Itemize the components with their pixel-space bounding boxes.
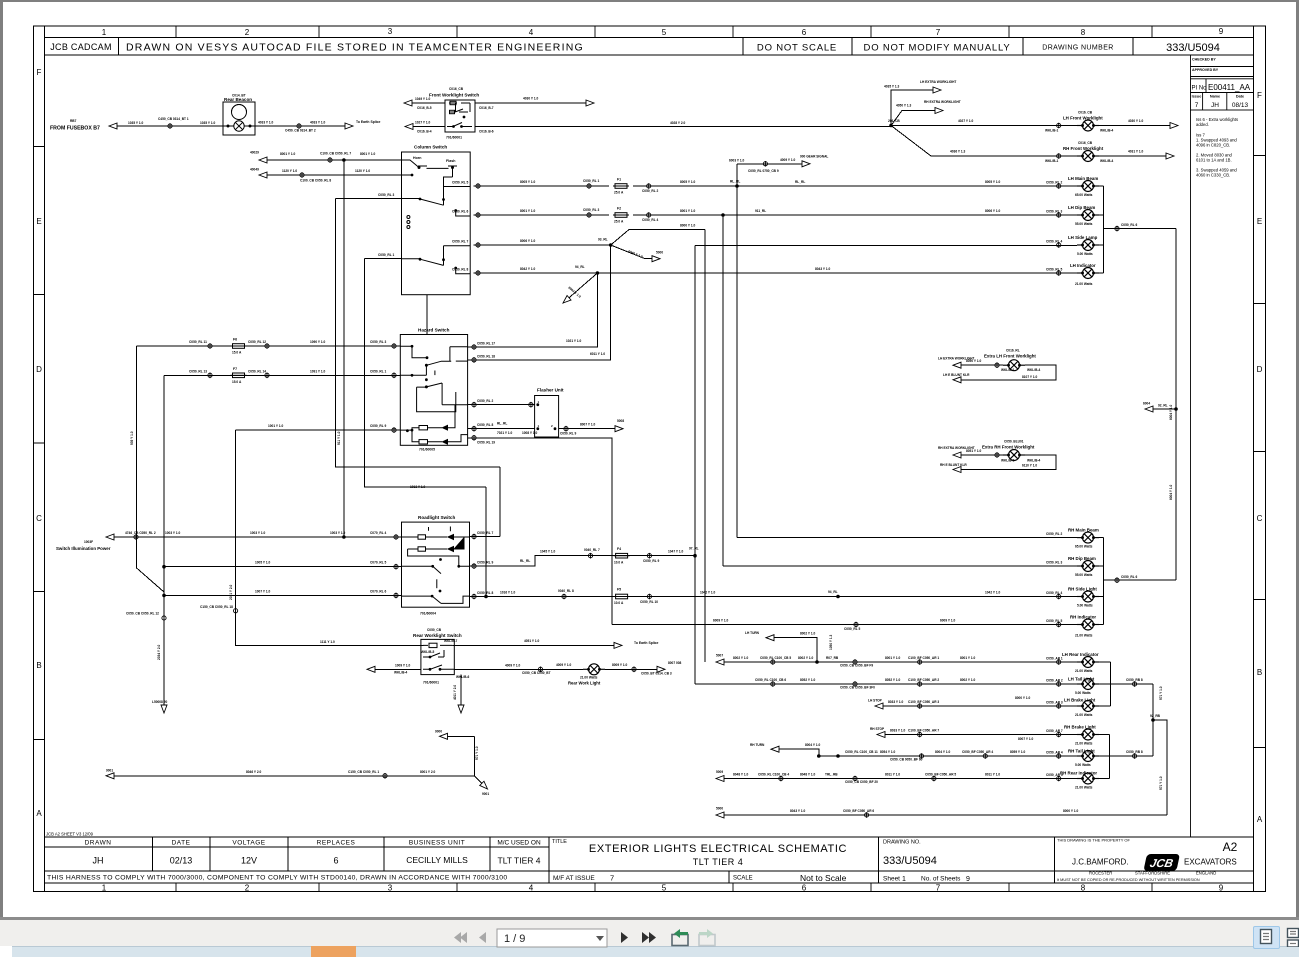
header row cells <box>119 38 1134 56</box>
svg-text:8046 Y 2.0: 8046 Y 2.0 <box>246 770 262 774</box>
svg-text:C016_B-7: C016_B-7 <box>479 106 494 110</box>
svg-text:WKL/B-6: WKL/B-6 <box>456 675 470 679</box>
svg-text:LH TURN: LH TURN <box>745 631 760 635</box>
page number box <box>497 929 607 947</box>
svg-text:LH STOP: LH STOP <box>868 699 883 703</box>
lamp: extra RH front worklight <box>1003 450 1025 461</box>
svg-text:F1: F1 <box>617 178 621 182</box>
svg-text:C050_RL 9: C050_RL 9 <box>643 559 659 563</box>
svg-text:C050_RL C100_CB 4: C050_RL C100_CB 4 <box>758 772 789 776</box>
svg-text:C050_RL 9: C050_RL 9 <box>560 432 576 436</box>
svg-text:206_CB: 206_CB <box>888 119 900 123</box>
viewer chrome: bottom page shadow line <box>0 917 1299 920</box>
node: bottom earth splice <box>865 812 869 818</box>
node: earth splice 8046 <box>383 773 387 779</box>
wire: spur arrow 5000 <box>611 245 652 259</box>
wire: extra RH worklight loop <box>960 455 1056 470</box>
svg-text:C050_RL C100_CB 11: C050_RL C100_CB 11 <box>845 750 878 754</box>
wire: bottom earth row 8000 <box>723 814 1167 816</box>
lamp: RH brake light <box>1077 729 1099 740</box>
fuse F4 <box>614 553 630 558</box>
svg-text:E: E <box>36 217 41 226</box>
wire: rear worklight top out to earth splice <box>452 644 615 646</box>
node: F6 in <box>208 343 212 349</box>
arrow: flash supply <box>259 172 267 178</box>
node: RH brake splices <box>918 732 922 738</box>
svg-text:93_RL: 93_RL <box>598 238 608 242</box>
svg-text:M/C USED ON: M/C USED ON <box>497 840 541 847</box>
svg-text:1042 Y 1.0: 1042 Y 1.0 <box>700 591 716 595</box>
svg-text:ROCESTER: ROCESTER <box>1089 871 1112 876</box>
svg-text:4028 Y 2.0: 4028 Y 2.0 <box>670 121 686 125</box>
svg-text:C016_B-5: C016_B-5 <box>417 106 432 110</box>
svg-text:C050_CB C050_RL 12: C050_CB C050_RL 12 <box>126 612 159 616</box>
svg-text:1035 Y 1.0: 1035 Y 1.0 <box>200 121 216 125</box>
svg-text:Rear Worklight Switch: Rear Worklight Switch <box>413 633 462 638</box>
svg-text:RH Rear Indicator: RH Rear Indicator <box>1060 771 1097 776</box>
wire: hazard to flasher pin2 <box>468 428 535 430</box>
svg-text:Hazard Switch: Hazard Switch <box>418 328 450 333</box>
junction: illumination bus tee <box>342 158 346 162</box>
lamp: RH tail light <box>1077 751 1099 762</box>
svg-text:6003 Y 1.0: 6003 Y 1.0 <box>729 159 745 163</box>
node: hazard out 19 <box>472 435 476 441</box>
wire: worklight feed to LH extra worklight arrow <box>891 90 933 126</box>
svg-text:CHECKED BY: CHECKED BY <box>1192 58 1216 62</box>
lamp: LH indicator <box>1077 268 1099 279</box>
svg-text:RH Main Beam: RH Main Beam <box>1068 528 1099 533</box>
svg-text:WKL/B-1: WKL/B-1 <box>1001 368 1015 372</box>
arrow: to earth splice (beacon) <box>345 123 353 129</box>
node: RH collector splice <box>1115 577 1119 583</box>
svg-text:C050_RL 4: C050_RL 4 <box>1046 240 1062 244</box>
svg-text:C050_RL 10: C050_RL 10 <box>640 600 658 604</box>
svg-text:5.00 Watts: 5.00 Watts <box>1077 604 1093 608</box>
svg-text:ENGLAND: ENGLAND <box>1196 871 1216 876</box>
svg-text:C050_AR 7: C050_AR 7 <box>1046 729 1063 733</box>
viewer toolbar background <box>0 920 1299 946</box>
svg-text:971 Y 1.0: 971 Y 1.0 <box>1159 686 1163 700</box>
svg-text:21.00 Watts: 21.00 Watts <box>1075 786 1093 790</box>
svg-text:1013 Y 1.0: 1013 Y 1.0 <box>410 485 426 489</box>
svg-text:C050_CB C050_BT: C050_CB C050_BT <box>522 671 551 675</box>
svg-text:C: C <box>36 514 42 523</box>
header row bottom line <box>45 54 1254 56</box>
svg-text:C050_RL 14: C050_RL 14 <box>248 369 266 373</box>
svg-text:65.00 Watts: 65.00 Watts <box>1075 545 1093 549</box>
svg-text:1016 Y 1.0: 1016 Y 1.0 <box>500 591 516 595</box>
node: column out 6 <box>476 212 480 218</box>
svg-text:9001: 9001 <box>482 792 489 796</box>
svg-text:2: 2 <box>245 884 250 893</box>
wire: LH rear collector <box>1110 662 1112 706</box>
svg-text:55.00 Watts: 55.00 Watts <box>1075 222 1093 226</box>
svg-text:8001 Y 1.0: 8001 Y 1.0 <box>960 656 976 660</box>
svg-text:2: 2 <box>551 424 553 428</box>
svg-text:RL_RL: RL_RL <box>730 180 740 184</box>
node: LH tail splices <box>771 681 775 687</box>
svg-text:8001 Y 2.0: 8001 Y 2.0 <box>420 770 436 774</box>
svg-text:97_RL: 97_RL <box>689 547 699 551</box>
svg-text:DRAWING NUMBER: DRAWING NUMBER <box>1042 45 1113 52</box>
svg-text:A: A <box>36 809 42 818</box>
next view icon (disabled) <box>699 929 715 946</box>
svg-text:701/60001: 701/60001 <box>423 681 439 685</box>
svg-text:21.00 Watts: 21.00 Watts <box>1075 669 1093 673</box>
svg-text:1003 Y 1.0: 1003 Y 1.0 <box>165 531 181 535</box>
svg-text:Horn: Horn <box>413 156 421 160</box>
toolbar: first page button <box>450 928 720 948</box>
svg-text:RH Front Worklight: RH Front Worklight <box>1063 146 1104 151</box>
svg-text:C450_CB 0314_BT 1: C450_CB 0314_BT 1 <box>158 117 189 121</box>
wire: hazard out to RH indicator riser <box>468 438 612 625</box>
svg-text:911 Y 1.0: 911 Y 1.0 <box>337 431 341 445</box>
svg-text:15.0 A: 15.0 A <box>232 351 242 355</box>
svg-text:C050_AR 1: C050_AR 1 <box>1046 657 1063 661</box>
svg-text:40049: 40049 <box>250 168 259 172</box>
svg-text:WKL/B-4: WKL/B-4 <box>1027 459 1041 463</box>
node: gear signal splice <box>763 161 767 167</box>
wire: bus from column pin3 down <box>336 199 501 468</box>
wire: indicator row 8043 <box>474 272 1104 274</box>
svg-text:LH Dip Beam: LH Dip Beam <box>1068 205 1095 210</box>
wire: tail link vertical <box>1152 684 1154 756</box>
svg-text:LH Main Beam: LH Main Beam <box>1068 176 1098 181</box>
svg-text:701/60004: 701/60004 <box>420 612 436 616</box>
svg-text:C050_RL 18: C050_RL 18 <box>477 355 495 359</box>
svg-text:8002 Y 1.0: 8002 Y 1.0 <box>960 678 976 682</box>
arrow: earth 9000 <box>440 733 448 739</box>
JCB logo <box>1143 854 1180 871</box>
svg-text:C050_RL 1: C050_RL 1 <box>583 179 599 183</box>
svg-text:4746_CB C050_RL 2: 4746_CB C050_RL 2 <box>125 531 156 535</box>
svg-text:6009 Y 1.0: 6009 Y 1.0 <box>940 619 956 623</box>
wire: hazard riser to indicator row <box>468 273 598 347</box>
node: F1 out <box>647 183 651 189</box>
svg-text:5.00 Watts: 5.00 Watts <box>1075 763 1091 767</box>
junction: RH tail riser on side row <box>836 595 840 599</box>
svg-text:3: 3 <box>388 884 393 893</box>
svg-text:94_RL: 94_RL <box>828 590 838 594</box>
svg-text:C050_RL 11: C050_RL 11 <box>189 340 207 344</box>
svg-text:C050_CB C050_BF F9: C050_CB C050_BF F9 <box>840 664 873 668</box>
svg-text:6: 6 <box>333 856 338 866</box>
arrow: LH rear ind feed <box>716 659 724 665</box>
lamp: LH side lamp <box>1077 240 1099 251</box>
node: illumination splice <box>134 534 138 540</box>
node: hazard in 1 <box>392 373 396 379</box>
junction: RH main riser tee <box>735 184 739 188</box>
svg-text:21.00 Watts: 21.00 Watts <box>580 676 598 680</box>
viewer chrome: top gray edge <box>0 0 1299 2</box>
svg-text:Rear Work Light: Rear Work Light <box>568 681 601 686</box>
svg-text:WKL/B-7: WKL/B-7 <box>444 639 458 643</box>
svg-text:Name: Name <box>1210 95 1220 99</box>
arrow: RH extra worklight out <box>935 108 943 114</box>
svg-text:Flash: Flash <box>446 159 455 163</box>
svg-text:WKL/B-5: WKL/B-5 <box>421 650 435 654</box>
svg-text:8000 Y 1.0: 8000 Y 1.0 <box>1015 696 1031 700</box>
svg-text:4051 Y 1.0: 4051 Y 1.0 <box>524 639 540 643</box>
node: hazard out 17 <box>472 344 476 350</box>
arrow: LH front worklight out <box>1170 123 1178 129</box>
svg-text:RL_RL: RL_RL <box>795 180 805 184</box>
svg-text:Flasher Unit: Flasher Unit <box>537 388 564 393</box>
svg-text:1050 Y 1.3: 1050 Y 1.3 <box>829 634 833 650</box>
svg-text:RH E BLUNT KLR: RH E BLUNT KLR <box>940 463 967 467</box>
node: flasher in <box>529 402 533 408</box>
svg-text:9: 9 <box>1219 27 1224 36</box>
node: hazard out 2 <box>472 402 476 408</box>
svg-text:J.C.BAMFORD.: J.C.BAMFORD. <box>1072 858 1128 867</box>
lamp: LH brake light <box>1077 701 1099 712</box>
svg-text:94_RL: 94_RL <box>575 265 585 269</box>
wire: RH side row through F5 <box>470 596 1104 598</box>
svg-text:STAFFORDSHIRE: STAFFORDSHIRE <box>1135 871 1170 876</box>
arrow: LH turn <box>766 635 774 641</box>
svg-text:12V: 12V <box>241 856 257 866</box>
node: RH indicator connector <box>1057 622 1061 628</box>
svg-text:1005 Y 1.0: 1005 Y 1.0 <box>255 561 271 565</box>
svg-text:1090 Y 1.0: 1090 Y 1.0 <box>310 340 326 344</box>
svg-text:CECILLY MILLS: CECILLY MILLS <box>406 855 468 865</box>
svg-text:SCALE: SCALE <box>733 876 753 882</box>
wire: LH rear indicator row <box>723 661 1111 663</box>
svg-text:4009 Y 1.0: 4009 Y 1.0 <box>505 663 521 667</box>
svg-text:C100_CB C050_RL 8: C100_CB C050_RL 8 <box>300 179 331 183</box>
svg-text:C050_RL 3: C050_RL 3 <box>1046 210 1062 214</box>
svg-text:5009: 5009 <box>716 770 723 774</box>
svg-text:8: 8 <box>1081 28 1086 37</box>
node: RH rear ind splices <box>779 776 783 782</box>
svg-text:F: F <box>1257 91 1262 100</box>
lamp: RH front worklight <box>1077 151 1099 162</box>
svg-text:C100_BF C050_AR 1: C100_BF C050_AR 1 <box>908 656 939 660</box>
svg-text:Switch Illumination Power: Switch Illumination Power <box>56 546 111 551</box>
wire: front worklight switch top row <box>411 102 587 104</box>
svg-text:4060 in C330_CB.: 4060 in C330_CB. <box>1196 173 1230 178</box>
wire: earth riser <box>447 736 475 776</box>
svg-text:4035 Y 1.3: 4035 Y 1.3 <box>884 85 900 89</box>
svg-text:7021 Y 1.0: 7021 Y 1.0 <box>497 431 513 435</box>
svg-text:C050_CB: C050_CB <box>427 628 442 632</box>
junction: bus 164 row1 <box>162 565 166 569</box>
wire: RH dip feed riser <box>722 215 724 566</box>
svg-text:added.: added. <box>1196 122 1209 127</box>
svg-text:10.0 A: 10.0 A <box>614 561 624 565</box>
svg-text:7: 7 <box>936 884 941 893</box>
svg-text:D: D <box>1257 365 1263 374</box>
svg-text:4: 4 <box>529 28 534 37</box>
svg-text:1045 Y 1.0: 1045 Y 1.0 <box>540 550 556 554</box>
svg-text:C100_BF C050_AR 7: C100_BF C050_AR 7 <box>908 729 939 733</box>
svg-text:B: B <box>1257 668 1262 677</box>
junction: worklight branch <box>889 124 893 128</box>
component: flasher unit <box>535 396 559 438</box>
svg-text:1042 Y 1.0: 1042 Y 1.0 <box>985 591 1001 595</box>
svg-text:WKL/B-4: WKL/B-4 <box>1100 129 1114 133</box>
wire: rear earth riser <box>1152 720 1167 815</box>
svg-text:8001 Y 1.0: 8001 Y 1.0 <box>680 209 696 213</box>
wire: rear work light lamp row <box>454 668 658 670</box>
node: extra LH connector <box>995 362 999 368</box>
svg-text:C050_CB C050_BF 3F0: C050_CB C050_BF 3F0 <box>840 686 875 690</box>
svg-text:911_RL: 911_RL <box>755 209 766 213</box>
svg-text:C050_RB 8: C050_RB 8 <box>1126 750 1143 754</box>
svg-text:C050_BF C050_AR 6: C050_BF C050_AR 6 <box>843 809 874 813</box>
svg-text:C050_RL 1: C050_RL 1 <box>370 369 386 373</box>
svg-text:C050_RB 8: C050_RB 8 <box>1126 678 1143 682</box>
svg-text:C050_BLU01: C050_BLU01 <box>1004 440 1024 444</box>
arrow: RH front worklight out <box>1166 153 1174 159</box>
svg-text:8006 Y 1.0: 8006 Y 1.0 <box>985 209 1001 213</box>
svg-text:55.00 Watts: 55.00 Watts <box>1075 573 1093 577</box>
svg-text:8052 Y 1.0: 8052 Y 1.0 <box>800 678 816 682</box>
component: column switch <box>402 152 471 295</box>
svg-text:4030 Y 1.0: 4030 Y 1.0 <box>1128 119 1144 123</box>
svg-text:DRAWN: DRAWN <box>85 840 112 847</box>
svg-text:C016_B-6: C016_B-6 <box>479 130 494 134</box>
svg-text:C050_RL 5: C050_RL 5 <box>1046 268 1062 272</box>
svg-text:LH Tail Light: LH Tail Light <box>1068 677 1095 682</box>
svg-text:08/13: 08/13 <box>1232 102 1249 109</box>
svg-text:C050_RL 8: C050_RL 8 <box>477 423 493 427</box>
wire: RH front worklight row <box>891 126 1166 157</box>
svg-text:6009 Y 1.0: 6009 Y 1.0 <box>713 619 729 623</box>
wire: main beam row 8005 <box>474 185 1104 187</box>
svg-text:L50008 20: L50008 20 <box>152 700 167 704</box>
svg-text:F7: F7 <box>233 367 237 371</box>
svg-text:1003 Y 1.0: 1003 Y 1.0 <box>330 531 346 535</box>
svg-text:7: 7 <box>610 874 614 883</box>
svg-text:C050_RL 17: C050_RL 17 <box>477 342 495 346</box>
svg-text:8059 Y 1.0: 8059 Y 1.0 <box>1010 750 1026 754</box>
wire: hazard bus down to rear worklight feed <box>236 430 424 645</box>
svg-text:RH Indicator: RH Indicator <box>1070 615 1096 620</box>
svg-text:6011 Y 1.0: 6011 Y 1.0 <box>590 352 605 356</box>
fuse F6 <box>231 344 247 349</box>
wire: bus from column pin1 down <box>365 259 486 487</box>
bottom numbers row top line <box>45 882 1254 884</box>
wire: fusebox B7 feed to rear beacon <box>116 125 346 127</box>
svg-text:2031 Y 2.0: 2031 Y 2.0 <box>229 584 233 600</box>
svg-text:C050_RL 3: C050_RL 3 <box>1046 561 1062 565</box>
svg-text:TLT TIER 4: TLT TIER 4 <box>498 856 541 866</box>
svg-text:8001 Y 1.0: 8001 Y 1.0 <box>280 152 296 156</box>
svg-text:971 Y 1.0: 971 Y 1.0 <box>1159 776 1163 790</box>
wire: RH main feed row <box>737 537 1104 539</box>
wire: column pin 3 to bus <box>336 198 402 200</box>
svg-text:C050_RL 2: C050_RL 2 <box>1046 181 1062 185</box>
wire: LH tail row <box>695 683 1153 685</box>
node: extra RH connector <box>995 452 999 458</box>
svg-text:1: 1 <box>902 876 906 883</box>
wire: roadlight feed 1005 <box>164 566 402 568</box>
svg-text:8004 Y 1.0: 8004 Y 1.0 <box>805 743 821 747</box>
svg-text:8107 Y 1.0: 8107 Y 1.0 <box>1022 375 1038 379</box>
lamp: LH tail light <box>1077 679 1099 690</box>
arrow: horn supply <box>259 157 267 163</box>
svg-text:TLT TIER 4: TLT TIER 4 <box>693 857 744 867</box>
svg-text:Extra RH Front Worklight: Extra RH Front Worklight <box>982 445 1035 450</box>
component: hazard switch 701/60005 <box>400 335 467 446</box>
component: rear beacon RB <box>223 102 255 135</box>
svg-text:8007 008: 8007 008 <box>668 661 682 665</box>
node: RH indicator splice <box>854 622 858 628</box>
component: front worklight switch 701/60001 <box>445 100 475 132</box>
node: column out 8 <box>476 270 480 276</box>
wire: bus 939 down left <box>137 346 164 592</box>
svg-text:1120 Y 1.0: 1120 Y 1.0 <box>355 169 370 173</box>
lamp: LH main beam <box>1077 181 1099 192</box>
svg-text:DO NOT SCALE: DO NOT SCALE <box>757 43 837 54</box>
svg-text:8043 Y 1.0: 8043 Y 1.0 <box>815 267 831 271</box>
svg-text:1003 Y 1.0: 1003 Y 1.0 <box>250 531 266 535</box>
wire: worklight feed to RH extra worklight arrow <box>891 111 935 126</box>
svg-text:8001 Y 1.0: 8001 Y 1.0 <box>360 152 376 156</box>
svg-text:15.0 A: 15.0 A <box>232 380 242 384</box>
svg-text:8005 Y 1.0: 8005 Y 1.0 <box>680 180 696 184</box>
svg-text:C050_RL 0750_CB 9: C050_RL 0750_CB 9 <box>748 169 779 173</box>
svg-text:R07_RB: R07_RB <box>826 656 839 660</box>
node: hazard out 8 <box>472 426 476 432</box>
svg-text:It MUST NOT BE COPIED OR RE-PR: It MUST NOT BE COPIED OR RE-PRODUCED WIT… <box>1057 878 1200 882</box>
svg-text:Roadlight Switch: Roadlight Switch <box>418 515 455 520</box>
wire: horn input 8001 <box>266 159 402 161</box>
svg-text:8: 8 <box>1081 884 1086 893</box>
junction: RH dip riser tee <box>721 213 725 217</box>
junction: illumination bus to row <box>342 535 346 539</box>
svg-text:C050_RL 12: C050_RL 12 <box>248 340 266 344</box>
svg-text:VOLTAGE: VOLTAGE <box>232 840 265 847</box>
wire: roadlight feed 1007 <box>164 594 402 596</box>
node: RH tail splices <box>919 753 923 759</box>
svg-text:333/U5094: 333/U5094 <box>1166 42 1220 54</box>
svg-text:3: 3 <box>388 27 393 36</box>
svg-text:8011 Y 1.0: 8011 Y 1.0 <box>985 772 1000 776</box>
node: LH indicator connector <box>1057 270 1061 276</box>
svg-text:C050_RL C100_CB 5: C050_RL C100_CB 5 <box>760 656 791 660</box>
svg-text:4009 Y 1.0: 4009 Y 1.0 <box>780 158 796 162</box>
svg-text:F2: F2 <box>617 207 621 211</box>
svg-text:JCB A2 SHEET V3 12/09: JCB A2 SHEET V3 12/09 <box>46 832 94 837</box>
lamp: LH dip beam <box>1077 210 1099 221</box>
svg-text:C450_CB 0314_BT 2: C450_CB 0314_BT 2 <box>285 129 316 133</box>
svg-text:Extra LH Front Worklight: Extra LH Front Worklight <box>984 354 1036 359</box>
svg-text:RH Side Light: RH Side Light <box>1068 587 1097 592</box>
svg-text:8048 Y 1.0: 8048 Y 1.0 <box>800 772 816 776</box>
svg-text:5000: 5000 <box>716 807 723 811</box>
svg-text:9: 9 <box>966 876 970 883</box>
svg-text:4033 Y 1.0: 4033 Y 1.0 <box>258 121 274 125</box>
node: F7 out <box>265 373 269 379</box>
svg-text:5008: 5008 <box>617 419 624 423</box>
svg-text:No. of Sheets: No. of Sheets <box>921 876 961 883</box>
svg-text:Rear Beacon: Rear Beacon <box>224 97 252 102</box>
svg-text:LH Side Lamp: LH Side Lamp <box>1068 235 1098 240</box>
wire: RH dip feed row <box>723 565 1104 567</box>
wire: bus 911 down left <box>163 375 165 705</box>
arrow: RH rear ind feed <box>716 776 724 782</box>
svg-text:C100_BF C050_AR 3: C100_BF C050_AR 3 <box>908 700 939 704</box>
svg-text:F5: F5 <box>617 588 621 592</box>
node: flasher out <box>564 426 568 432</box>
svg-text:C050_RL 1: C050_RL 1 <box>378 253 394 257</box>
svg-text:65.00 Watts: 65.00 Watts <box>1075 193 1093 197</box>
svg-text:JH: JH <box>1211 102 1219 109</box>
svg-text:DRAWING NO.: DRAWING NO. <box>883 840 921 846</box>
svg-text:PI No: PI No <box>1192 86 1208 92</box>
